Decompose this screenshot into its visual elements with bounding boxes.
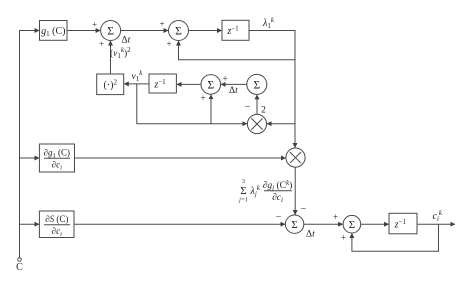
wire delay Z3 to output cik xyxy=(417,223,455,225)
svg-text:Σ: Σ xyxy=(207,79,214,91)
svg-text:Δt: Δt xyxy=(122,36,131,46)
svg-text:Δt: Δt xyxy=(229,86,238,96)
label formula sum lambda dg/dc xyxy=(238,179,292,204)
svg-text:λ1k: λ1k xyxy=(262,16,275,30)
svg-text:C: C xyxy=(16,262,23,273)
wire sum S4 output to sum S3 xyxy=(221,83,247,85)
delay Z1 box xyxy=(222,20,249,40)
squarer box xyxy=(97,74,124,95)
svg-text:+: + xyxy=(200,93,205,103)
svg-text:λjk: λjk xyxy=(250,184,261,198)
wire dS/dc box to sum S5 left input xyxy=(74,223,285,225)
svg-text:g1 (C): g1 (C) xyxy=(41,26,65,38)
svg-text:∂ci: ∂ci xyxy=(272,193,283,204)
svg-text:+: + xyxy=(159,19,164,29)
wire lambda rail to multiplier M1 right input xyxy=(267,123,295,125)
sum S6 xyxy=(343,215,361,233)
svg-text:−: − xyxy=(245,102,251,113)
node C terminal xyxy=(18,258,22,262)
wire rail to dS/dc box xyxy=(20,223,39,225)
svg-text:+: + xyxy=(222,74,227,84)
box dS/dc xyxy=(39,211,74,238)
svg-text:z−1: z−1 xyxy=(394,218,407,231)
wire g1 to sum S1 xyxy=(67,30,100,32)
svg-text:j=1: j=1 xyxy=(238,198,248,204)
svg-text:2: 2 xyxy=(261,106,266,116)
wire delay Z2 output (v1k) to squarer box xyxy=(124,83,149,85)
svg-text:(v1k)2: (v1k)2 xyxy=(110,46,131,60)
svg-text:3: 3 xyxy=(242,179,245,185)
svg-text:z−1: z−1 xyxy=(153,78,166,91)
svg-text:cik: cik xyxy=(433,209,443,223)
wire sum S6 to delay Z3 xyxy=(361,223,389,225)
sum S4 xyxy=(247,74,267,94)
label dg1/dc box xyxy=(44,148,70,172)
wire sum S3 output to delay Z2 xyxy=(177,83,201,85)
svg-text:+: + xyxy=(341,233,346,243)
svg-text:Σ: Σ xyxy=(107,26,114,38)
wire output feedback to sum S6 bottom xyxy=(352,224,439,251)
wire feedback lambda to sum S2 bottom xyxy=(179,41,296,60)
multiplier M2 xyxy=(286,148,305,167)
svg-text:(·)2: (·)2 xyxy=(103,79,117,92)
svg-text:∂ci: ∂ci xyxy=(52,160,62,172)
svg-text:Σ: Σ xyxy=(253,79,260,91)
wire dg1/dc box to multiplier M2 left input xyxy=(75,157,286,159)
svg-text:Σ: Σ xyxy=(291,219,297,231)
wire junction branch up to sum S3 bottom xyxy=(210,95,212,124)
wire sum S2 to delay Z1 xyxy=(189,30,222,32)
svg-text:+: + xyxy=(99,39,104,49)
box g1(C) xyxy=(40,21,68,41)
wire multiplier M1 output up to sum S4 xyxy=(256,95,258,115)
wire delay Z1 output to right rail (lambda) xyxy=(249,31,295,148)
svg-text:−: − xyxy=(276,212,282,223)
sum S5 xyxy=(285,215,303,233)
multiplier M1 xyxy=(247,114,266,133)
svg-text:Σ: Σ xyxy=(175,26,182,38)
wire squarer output up to sum S1 bottom xyxy=(110,41,112,74)
svg-text:Δt: Δt xyxy=(306,230,315,240)
svg-text:∂S (C): ∂S (C) xyxy=(45,214,68,224)
wire sum S5 to sum S6 xyxy=(304,223,343,225)
wire rail to dg1/dc box xyxy=(20,157,39,159)
delay Z2 box xyxy=(149,74,176,93)
svg-text:∂gj (Ck): ∂gj (Ck) xyxy=(263,179,293,192)
sum S1 xyxy=(101,21,121,41)
wire multiplier M2 output down to sum S5 top xyxy=(294,167,296,214)
svg-text:+: + xyxy=(92,20,97,30)
box dg1/dc xyxy=(39,144,74,172)
svg-text:z−1: z−1 xyxy=(226,24,239,37)
svg-text:v1k: v1k xyxy=(132,69,144,83)
svg-text:+: + xyxy=(333,212,338,222)
svg-text:∂ci: ∂ci xyxy=(52,226,62,238)
svg-text:−: − xyxy=(301,204,307,215)
delay Z3 box xyxy=(389,213,417,234)
sum S2 xyxy=(169,21,189,41)
wire v1k branch down and right to multiplier M1 left input xyxy=(137,84,247,124)
wire sum S1 to sum S2 xyxy=(121,30,168,32)
svg-text:Σ: Σ xyxy=(240,185,246,197)
wire left input rail from node C up to g1 box xyxy=(20,31,40,259)
sum S3 xyxy=(201,75,221,95)
svg-text:+: + xyxy=(166,39,171,49)
label dS/dc box xyxy=(44,214,70,238)
svg-text:Σ: Σ xyxy=(349,219,355,231)
